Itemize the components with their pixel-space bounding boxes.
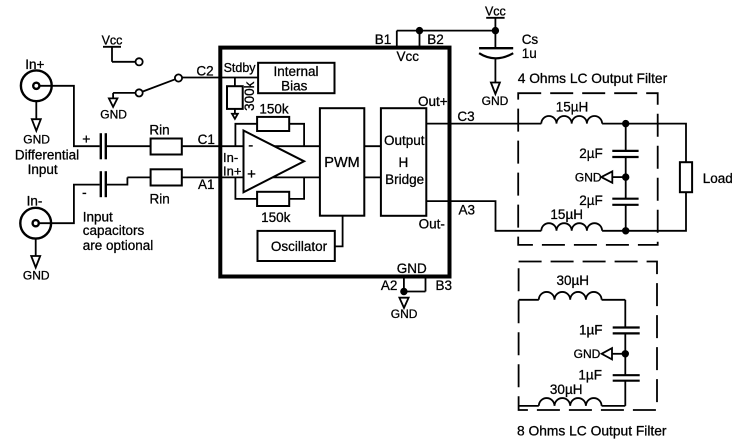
inductor L4 30uH bbox=[539, 382, 602, 406]
svg-text:Out-: Out- bbox=[419, 217, 445, 232]
switch S1 blade bbox=[143, 79, 176, 91]
ground (In+ BNC) bbox=[23, 101, 50, 146]
wire 8ohm bottom left bbox=[519, 405, 539, 407]
svg-text:150k: 150k bbox=[259, 102, 289, 117]
svg-text:30µH: 30µH bbox=[557, 273, 590, 288]
pin B1 stub bbox=[396, 31, 398, 47]
wire feedback top right bbox=[289, 124, 304, 146]
svg-text:30µH: 30µH bbox=[550, 382, 583, 397]
wire mid vertical lower bbox=[625, 205, 627, 231]
svg-text:8 Ohms LC Output Filter: 8 Ohms LC Output Filter bbox=[517, 424, 667, 439]
svg-text:Vcc: Vcc bbox=[102, 34, 123, 48]
pin B2 stub bbox=[419, 31, 421, 47]
wire A2 B3 join bbox=[404, 291, 426, 293]
svg-text:GND: GND bbox=[23, 268, 50, 282]
svg-text:GND: GND bbox=[391, 307, 418, 321]
svg-text:15µH: 15µH bbox=[550, 207, 583, 222]
pin A2 stub bbox=[403, 277, 405, 292]
wire mid vertical middle bbox=[625, 157, 627, 199]
svg-text:Load: Load bbox=[703, 171, 733, 186]
svg-text:15µH: 15µH bbox=[556, 99, 589, 114]
connector J1 In+ BNC bbox=[21, 70, 52, 101]
inductor L1 15uH bbox=[541, 99, 602, 123]
svg-text:1µF: 1µF bbox=[578, 367, 602, 382]
wire bbox=[112, 61, 136, 63]
svg-text:Stdby: Stdby bbox=[224, 61, 257, 75]
wire cap to Rin jog bbox=[106, 177, 128, 184]
resistor Rin (bottom) bbox=[149, 169, 181, 206]
svg-text:A1: A1 bbox=[198, 177, 215, 192]
svg-text:300k: 300k bbox=[242, 81, 257, 111]
svg-text:C2: C2 bbox=[196, 63, 213, 78]
block PWM bbox=[320, 108, 364, 216]
resistor 150k (top) bbox=[257, 102, 289, 131]
svg-text:GND: GND bbox=[23, 133, 50, 147]
wire 8ohm vertical upper bbox=[624, 300, 626, 328]
svg-text:In+: In+ bbox=[223, 163, 241, 178]
svg-text:H: H bbox=[399, 155, 409, 170]
wire In+ to cap bbox=[39, 86, 100, 146]
svg-text:PWM: PWM bbox=[324, 155, 359, 171]
pin B3 stub bbox=[425, 277, 427, 292]
wire Vcc to switch contact bbox=[111, 47, 113, 62]
svg-text:Bias: Bias bbox=[281, 79, 308, 94]
label input capacitors note bbox=[83, 210, 154, 253]
svg-text:Vcc: Vcc bbox=[397, 49, 420, 64]
svg-text:In-: In- bbox=[27, 193, 43, 208]
resistor Load bbox=[680, 162, 733, 192]
svg-text:B2: B2 bbox=[427, 32, 444, 47]
wire Out- / A3 to filter bbox=[426, 201, 541, 231]
op-amp U1a bbox=[244, 131, 305, 193]
wire switch to GND corner bbox=[113, 92, 135, 94]
svg-text:GND: GND bbox=[482, 94, 509, 108]
svg-text:150k: 150k bbox=[261, 210, 291, 225]
svg-text:B3: B3 bbox=[436, 278, 453, 293]
wire 8ohm vertical middle bbox=[624, 333, 626, 375]
svg-text:+: + bbox=[247, 166, 256, 183]
capacitor 1uF (bottom) bbox=[578, 367, 639, 382]
wire 8ohm top left bbox=[519, 299, 539, 301]
svg-text:Internal: Internal bbox=[273, 64, 318, 79]
svg-text:Input: Input bbox=[28, 162, 58, 177]
svg-text:+: + bbox=[82, 131, 90, 147]
wire In- row (C1 / In- net) bbox=[106, 145, 381, 147]
resistor Rin (top) bbox=[149, 122, 181, 154]
wire Vcc rail top bbox=[397, 30, 496, 32]
Vcc supply symbol (Cs) bbox=[485, 4, 506, 18]
svg-text:2µF: 2µF bbox=[579, 193, 603, 208]
svg-text:Rin: Rin bbox=[149, 122, 169, 137]
wire feedback bottom loop bbox=[235, 177, 257, 199]
wire C2 to chip bbox=[182, 77, 258, 79]
svg-text:GND: GND bbox=[574, 347, 601, 361]
wire oscillator to PWM bbox=[335, 216, 343, 247]
node junction B2 bbox=[417, 28, 423, 34]
wire 8ohm vertical lower bbox=[624, 381, 626, 406]
node junction bottom bbox=[623, 228, 629, 234]
svg-text:Bridge: Bridge bbox=[385, 172, 424, 187]
svg-text:1u: 1u bbox=[522, 46, 537, 61]
wire Vcc to Cs bbox=[494, 18, 496, 48]
svg-text:GND: GND bbox=[397, 261, 427, 276]
wire L1 to load corner bbox=[602, 124, 686, 163]
ground reference (4 ohm filter) bbox=[575, 170, 629, 184]
svg-text:-: - bbox=[248, 137, 253, 154]
svg-text:A2: A2 bbox=[381, 278, 398, 293]
svg-text:C3: C3 bbox=[457, 109, 474, 124]
filter box 8 Ohms (dashed) bbox=[519, 262, 657, 411]
svg-text:capacitors: capacitors bbox=[83, 223, 145, 238]
IC U1 body bbox=[220, 48, 449, 277]
block Internal Bias bbox=[258, 63, 334, 94]
node junction A2 bbox=[401, 289, 407, 295]
capacitor 2uF (top) bbox=[579, 146, 638, 161]
ground (Cs) bbox=[482, 60, 509, 109]
wire L2 to load corner bbox=[602, 192, 686, 231]
svg-text:Cs: Cs bbox=[522, 32, 539, 47]
wire L3 to vertical bbox=[602, 299, 626, 301]
svg-text:Differential: Differential bbox=[15, 148, 79, 163]
ground (A2 B3) bbox=[391, 298, 418, 321]
ground reference (8 ohm filter) bbox=[574, 347, 628, 361]
capacitor 2uF (bottom) bbox=[579, 193, 638, 208]
svg-text:C1: C1 bbox=[198, 132, 215, 147]
svg-text:B1: B1 bbox=[375, 32, 392, 47]
wire mid vertical upper bbox=[625, 124, 627, 151]
wire bbox=[112, 93, 114, 99]
svg-text:Out+: Out+ bbox=[418, 94, 448, 109]
connector J2 In- BNC bbox=[20, 208, 51, 239]
switch S1 contact Vcc bbox=[136, 58, 143, 65]
block Output H Bridge bbox=[381, 108, 426, 216]
block Oscillator bbox=[258, 231, 335, 261]
ground (In- BNC) bbox=[23, 239, 50, 283]
inductor L3 30uH bbox=[539, 273, 602, 300]
node junction top bbox=[623, 121, 629, 127]
wire Out+ / C3 to filter bbox=[426, 123, 541, 125]
wire In+ row (A1 / In+ net) bbox=[127, 176, 381, 178]
switch S1 contact GND bbox=[136, 89, 143, 96]
inductor L2 15uH bbox=[541, 207, 602, 231]
svg-text:-: - bbox=[82, 184, 87, 200]
svg-text:4 Ohms LC Output Filter: 4 Ohms LC Output Filter bbox=[518, 71, 668, 86]
svg-text:Oscillator: Oscillator bbox=[271, 239, 328, 254]
svg-text:A3: A3 bbox=[458, 202, 475, 217]
wire L4 to vertical bbox=[602, 405, 626, 407]
label Differential Input bbox=[15, 148, 79, 177]
resistor 150k (bottom) bbox=[257, 192, 291, 225]
capacitor 1uF (top) bbox=[579, 322, 640, 337]
svg-text:GND: GND bbox=[575, 170, 602, 184]
svg-text:Vcc: Vcc bbox=[485, 4, 506, 18]
svg-text:1µF: 1µF bbox=[579, 322, 603, 337]
wire feedback bottom right bbox=[289, 177, 304, 199]
capacitor Cin2 bbox=[101, 171, 106, 197]
svg-text:are optional: are optional bbox=[83, 238, 154, 253]
filter box 4 Ohms (dashed) bbox=[518, 93, 658, 245]
ground (switch) bbox=[100, 98, 127, 121]
capacitor Cin1 bbox=[101, 133, 106, 159]
wire In- to cap bbox=[39, 185, 100, 224]
svg-text:GND: GND bbox=[100, 108, 127, 122]
Vcc supply symbol (standby switch) bbox=[102, 34, 123, 48]
switch S1 pole bbox=[175, 74, 182, 81]
svg-text:Rin: Rin bbox=[149, 192, 169, 207]
wire feedback top loop bbox=[235, 124, 257, 146]
svg-text:Output: Output bbox=[384, 133, 425, 148]
capacitor Cs bbox=[479, 32, 538, 61]
resistor 300k bbox=[227, 78, 257, 119]
node junction Vcc rail bbox=[493, 28, 499, 34]
svg-text:2µF: 2µF bbox=[579, 146, 603, 161]
